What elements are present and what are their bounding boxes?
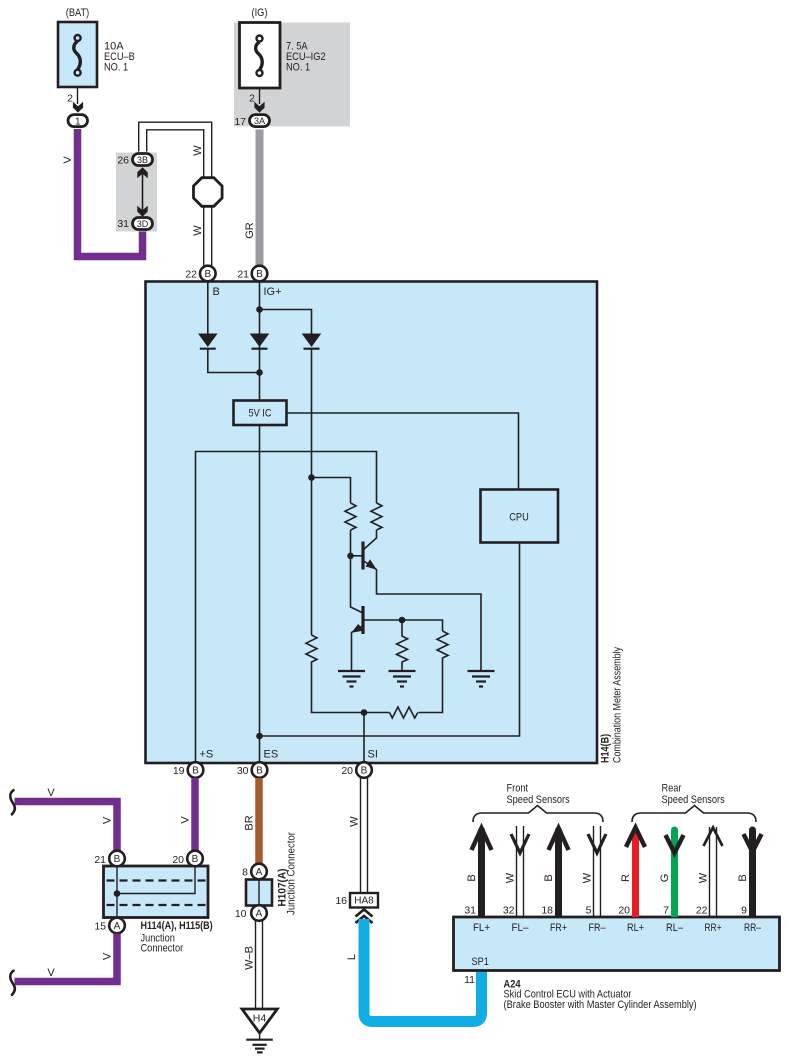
svg-text:30: 30: [237, 765, 249, 777]
node junction dot Q1 base: [347, 553, 354, 560]
svg-text:FL+: FL+: [473, 922, 490, 934]
fuse ECU-B body: [58, 22, 97, 87]
diode D2: [250, 334, 270, 348]
svg-text:ES: ES: [264, 749, 279, 761]
svg-text:G: G: [659, 874, 671, 883]
wire G green RL- pin 7: [671, 830, 678, 850]
svg-text:3B: 3B: [137, 155, 148, 165]
svg-text:22: 22: [185, 269, 197, 281]
double arrow link 3B-3D: [142, 168, 144, 215]
svg-text:9: 9: [741, 905, 747, 917]
node junction dot D1-D2 join: [256, 369, 263, 376]
wire V violet node19 to H114: [191, 778, 199, 851]
node junction dot inside H114: [114, 890, 121, 897]
wire W hollow FR- pin 5: [593, 826, 595, 917]
svg-text:B: B: [466, 874, 478, 881]
svg-text:+S: +S: [200, 749, 214, 761]
svg-text:L: L: [346, 954, 358, 960]
wire L cyan HA8 to skid ECU pin 11: [364, 919, 482, 1022]
noise filter octagon: [194, 178, 223, 207]
svg-text:B: B: [737, 874, 749, 881]
wire fuse to node 3A: [259, 88, 261, 104]
svg-text:20: 20: [172, 854, 184, 866]
wire R2 to Q1 collector: [364, 530, 377, 550]
fuse ECU-IG2 element symbol: [256, 36, 263, 77]
svg-text:B: B: [256, 766, 263, 777]
svg-text:SP1: SP1: [472, 956, 489, 968]
svg-text:3A: 3A: [254, 116, 265, 126]
skid control ECU box A24: [454, 917, 780, 971]
svg-text:V: V: [102, 816, 114, 824]
transistor Q2 bar: [361, 606, 364, 634]
wire SI down to node 20: [363, 713, 365, 771]
pin arrow into node 1: [73, 102, 83, 113]
svg-text:31: 31: [117, 218, 129, 230]
svg-text:20: 20: [618, 905, 630, 917]
svg-text:2: 2: [249, 93, 255, 105]
resistor R4 Q2 base to ground: [397, 620, 408, 671]
svg-text:B: B: [256, 269, 263, 280]
svg-text:A: A: [256, 867, 263, 878]
svg-text:A: A: [256, 909, 263, 920]
svg-text:8: 8: [242, 867, 248, 879]
svg-text:(BAT): (BAT): [66, 7, 89, 19]
transistor Q2 emitter with arrow: [352, 626, 364, 672]
wire D3 down through junction to resistor R3: [311, 349, 313, 635]
wire CPU bottom to ES junction: [260, 543, 520, 737]
svg-text:FR–: FR–: [589, 922, 607, 934]
fuse ECU-IG2 body: [240, 23, 281, 89]
node junction dot D3 branch: [308, 474, 315, 481]
svg-text:2: 2: [67, 93, 73, 105]
svg-text:31: 31: [464, 905, 476, 917]
svg-text:NO. 1: NO. 1: [104, 62, 128, 74]
resistor R1: [345, 503, 356, 530]
wire R1 to Q1 base and Q2 collector: [351, 530, 364, 613]
svg-text:5: 5: [586, 905, 592, 917]
wire H4 apex to ground: [259, 1033, 261, 1040]
ground G1: [338, 671, 365, 687]
svg-text:V: V: [47, 967, 55, 979]
wire fuse to node 1: [77, 88, 79, 105]
svg-text:20: 20: [341, 765, 353, 777]
svg-text:V: V: [102, 952, 114, 960]
svg-text:22: 22: [696, 905, 708, 917]
diode D1: [198, 334, 218, 348]
junction connector H114 box: [104, 866, 209, 918]
svg-text:1: 1: [75, 116, 81, 127]
svg-text:W: W: [582, 872, 594, 883]
svg-text:B: B: [192, 766, 199, 777]
svg-text:HA8: HA8: [354, 896, 374, 907]
wire +S line with top rail: [196, 452, 377, 771]
svg-text:V: V: [62, 156, 74, 164]
wire BR brown node30 to H107: [255, 778, 263, 864]
svg-text:Connector: Connector: [141, 943, 184, 955]
svg-text:BR: BR: [244, 815, 256, 830]
fuse ECU-B element symbol: [74, 35, 81, 76]
svg-text:B: B: [543, 874, 555, 881]
torn wire end top: [10, 790, 15, 814]
wire V violet node1 to 3D: [78, 129, 143, 257]
wire R red RL+ pin 20: [632, 831, 639, 851]
brace front speed sensors: [473, 806, 603, 823]
wire D1 output join: [208, 349, 260, 373]
svg-text:A: A: [114, 921, 121, 932]
svg-text:Front: Front: [507, 783, 529, 795]
svg-text:11: 11: [464, 974, 475, 986]
svg-text:V: V: [180, 816, 192, 824]
wire inside H114 21-15: [116, 867, 118, 918]
node junction dot ES-CPU: [256, 733, 263, 740]
wire inside H114 20 to bus: [117, 867, 195, 894]
wire V violet bottom left with torn end: [15, 934, 118, 982]
svg-text:RR–: RR–: [744, 922, 762, 934]
junction connector H114 dashed bus lines: [107, 879, 206, 881]
svg-text:W: W: [505, 872, 517, 883]
node junction dot IG+ branch: [256, 306, 263, 313]
svg-text:10: 10: [235, 908, 247, 920]
svg-text:B: B: [361, 766, 368, 777]
svg-text:Combination Meter Assembly: Combination Meter Assembly: [612, 647, 624, 763]
wire Q2 base: [363, 620, 443, 631]
ground symbol below H4: [246, 1040, 272, 1053]
node junction dot Q2 base: [399, 617, 406, 624]
wire ES line 5VIC down to node 30: [259, 425, 261, 770]
node junction dot SI: [361, 709, 368, 716]
resistor R3 left leg: [306, 635, 390, 713]
svg-text:Speed Sensors: Speed Sensors: [662, 794, 726, 806]
svg-text:W: W: [192, 225, 204, 236]
svg-text:H14(B): H14(B): [600, 734, 612, 763]
svg-text:CPU: CPU: [509, 512, 529, 524]
shield chevrons below HA8: [356, 910, 373, 917]
wire W hollow FL- pin 32: [516, 826, 518, 917]
svg-text:B: B: [213, 286, 220, 298]
torn wire end bottom: [10, 971, 15, 995]
svg-text:H114(A), H115(B): H114(A), H115(B): [141, 920, 213, 932]
wire node22 to diode D1: [207, 281, 209, 334]
junction 3B/3D gray background: [116, 153, 157, 232]
wire junction to resistor R1: [312, 478, 351, 504]
combination meter assembly box H14(B): [146, 282, 598, 764]
brace rear speed sensors: [632, 806, 756, 823]
svg-text:5V IC: 5V IC: [248, 408, 271, 420]
svg-text:RR+: RR+: [705, 922, 722, 934]
svg-text:16: 16: [335, 895, 347, 907]
ground G3: [468, 671, 495, 687]
resistor R5 right of Q2: [418, 631, 448, 713]
svg-text:W: W: [192, 145, 204, 156]
wire 5VIC to CPU: [287, 413, 519, 490]
svg-text:W: W: [698, 872, 710, 883]
pin arrow into node 3A: [254, 102, 264, 113]
svg-text:FL–: FL–: [512, 922, 530, 934]
wire W-B hollow node10 to ground H4: [255, 921, 257, 1009]
wire B black FL+ pin 31: [478, 831, 485, 851]
diode D3: [302, 334, 322, 348]
svg-text:18: 18: [541, 905, 553, 917]
wire B black FR+ pin 18: [555, 831, 562, 851]
svg-text:Rear: Rear: [662, 783, 682, 795]
ground point H4 triangle: [242, 1009, 277, 1033]
wire V violet top left with torn end: [15, 802, 118, 852]
svg-text:V: V: [47, 787, 55, 799]
svg-text:IG+: IG+: [264, 286, 282, 298]
svg-text:FR+: FR+: [550, 922, 567, 934]
svg-text:7: 7: [663, 905, 669, 917]
svg-text:17: 17: [234, 116, 246, 128]
wire W hollow from 3B over to node 22: [139, 122, 212, 265]
svg-text:SI: SI: [368, 749, 378, 761]
svg-text:W: W: [349, 816, 361, 827]
svg-text:15: 15: [94, 921, 106, 933]
wire Q1 base: [351, 555, 363, 557]
svg-text:B: B: [114, 854, 121, 865]
wire GR gray 3A to node 21: [256, 130, 264, 266]
svg-text:B: B: [192, 854, 199, 865]
svg-text:H4: H4: [253, 1013, 267, 1025]
wire node21 to 5V IC: [259, 281, 261, 401]
node 1: [68, 115, 88, 127]
svg-text:3D: 3D: [137, 219, 149, 229]
svg-text:W–B: W–B: [244, 946, 256, 970]
transistor Q1 emitter with arrow: [363, 561, 481, 672]
svg-text:RL+: RL+: [627, 922, 644, 934]
svg-text:RL–: RL–: [666, 922, 684, 934]
svg-text:B: B: [204, 269, 211, 280]
resistor R2: [371, 503, 382, 530]
svg-text:19: 19: [173, 765, 185, 777]
wire W hollow node20 to HA8: [360, 778, 362, 893]
junction connector H107 box: [246, 880, 272, 906]
resistor R6 horizontal on SI line: [390, 707, 418, 718]
svg-text:R: R: [620, 874, 632, 882]
regulator 5V IC: [234, 401, 287, 426]
svg-text:32: 32: [503, 905, 515, 917]
svg-text:Speed Sensors: Speed Sensors: [507, 794, 571, 806]
wire W hollow RR+ pin 22: [709, 827, 711, 917]
transistor Q1 bar: [361, 542, 364, 570]
svg-text:26: 26: [117, 155, 129, 167]
svg-text:NO. 1: NO. 1: [286, 62, 310, 74]
svg-text:(Brake Booster with Master Cyl: (Brake Booster with Master Cylinder Asse…: [504, 999, 697, 1011]
svg-text:(IG): (IG): [252, 7, 268, 19]
wire B black RR- pin 9: [749, 830, 756, 850]
svg-text:Junction Connector: Junction Connector: [286, 832, 298, 915]
wire branch to diode D3: [260, 310, 312, 334]
svg-text:GR: GR: [244, 222, 256, 239]
svg-text:21: 21: [237, 269, 249, 281]
svg-text:21: 21: [94, 854, 106, 866]
ic CPU: [481, 490, 559, 543]
ground G2: [389, 671, 416, 687]
fuse ECU-IG2 gray background: [234, 23, 350, 127]
